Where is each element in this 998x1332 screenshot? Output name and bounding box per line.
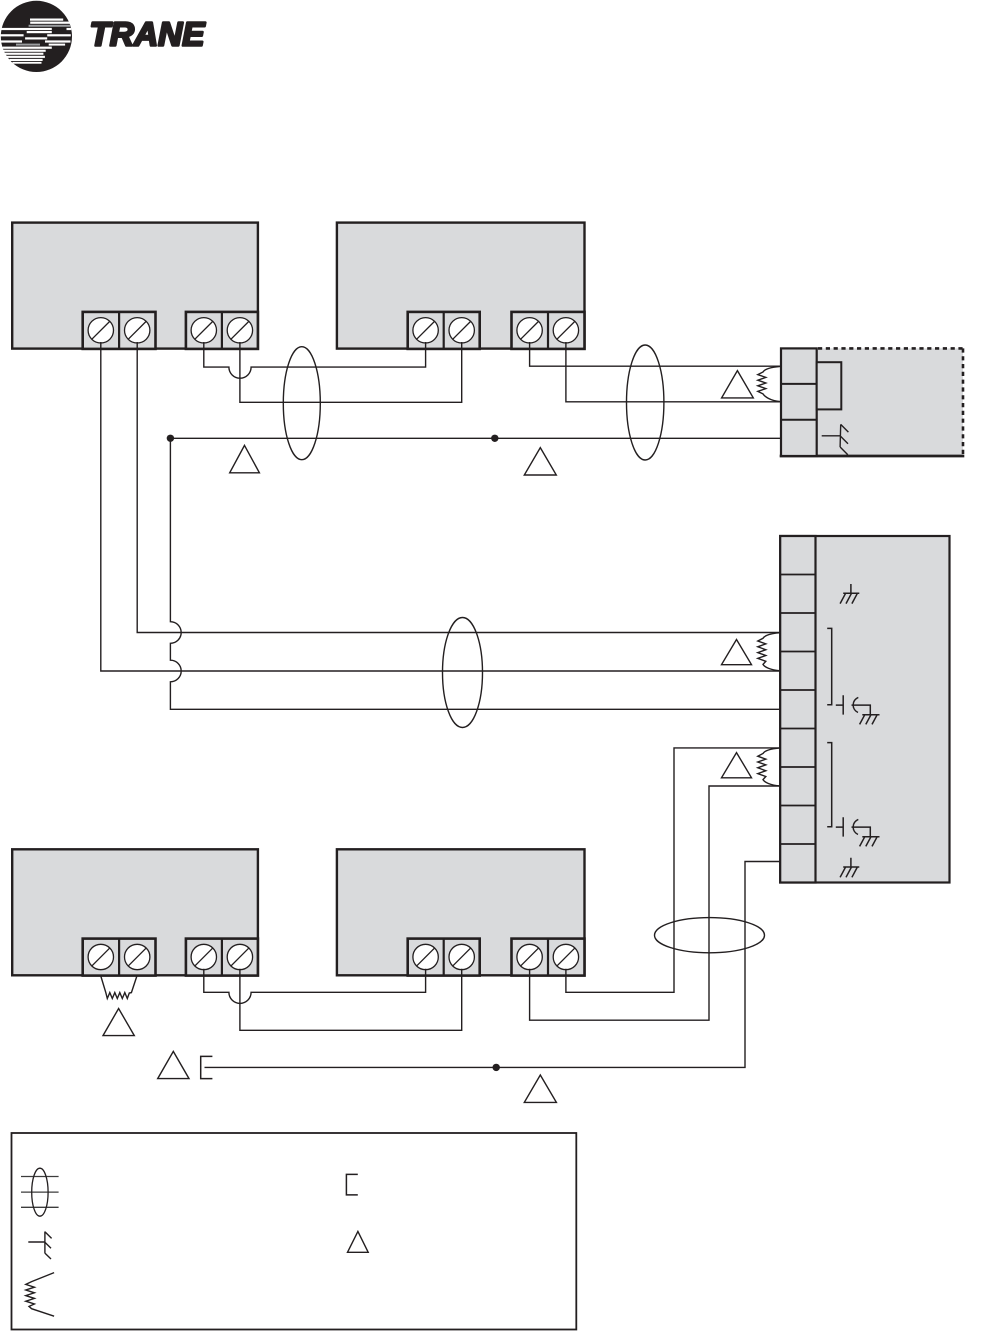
- TB4 screw 1: [517, 318, 542, 343]
- shielded cable symbol (top cable 1): [283, 347, 320, 460]
- TB3 screw 2: [449, 318, 474, 343]
- TB2 screw 1: [191, 318, 216, 343]
- bracket (U5 comm pair 2): [827, 743, 832, 827]
- wire U2.TB4-1 to J1 terminal 1: [530, 342, 781, 366]
- U5 strip dividers: [780, 575, 815, 845]
- note triangle (on shield 2 wire): [524, 1075, 556, 1102]
- controller box U3 (bottom-left): [12, 849, 258, 975]
- wire U1.TB1-2 to U5 terminal 3: [137, 342, 781, 633]
- shield drop wire (with hops over comm wires): [170, 438, 781, 709]
- legend: note triangle symbol: [348, 1231, 369, 1252]
- terminal block TB3 on U2: [408, 312, 480, 349]
- terminal block TB7 on U4: [408, 939, 480, 976]
- terminal block TB1 on U1 (comm link): [83, 312, 156, 349]
- wire U3.TB6-1 to U4.TB7-1 (with hop): [204, 969, 426, 1004]
- TB3 divider: [443, 312, 445, 349]
- controller box U4 (bottom-middle): [337, 849, 585, 975]
- legend: chassis ground symbol: [28, 1232, 51, 1260]
- TB5 screw 2: [125, 944, 150, 969]
- wire connector bracket (shield 2 start): [201, 1056, 213, 1078]
- TB5 screw 1: [88, 944, 113, 969]
- note triangle (at R2): [722, 640, 752, 665]
- shielded cable symbol (link cable 3): [443, 618, 483, 728]
- junction node (shield corner): [167, 435, 174, 442]
- terminal block TB5 on U3: [83, 939, 156, 976]
- controller box U1 (top-left): [12, 223, 258, 349]
- earth ground symbol (U5 bottom): [840, 858, 859, 878]
- junction node (shield 2): [493, 1064, 500, 1071]
- connector J1 terminal column: [781, 348, 817, 456]
- TB2 screw 2: [227, 318, 252, 343]
- TB8 screw 1: [517, 944, 542, 969]
- shielded cable symbol (top cable 2): [627, 345, 664, 460]
- note triangle (at R1): [722, 371, 754, 398]
- wire U1.TB1-1 to U5 terminal 4: [101, 342, 781, 671]
- wire U2.TB4-2 to J1 terminal 2: [566, 342, 781, 402]
- shielded cable symbol (link cable 4, horizontal): [655, 918, 765, 953]
- note triangle (at R3): [722, 753, 752, 778]
- note triangle 4 (left, on shield wire): [230, 445, 260, 472]
- wire U1.TB2-2 to U2.TB3-2: [240, 342, 462, 402]
- shield wire segment 1 (to J1 ground terminal): [170, 437, 781, 439]
- note triangle 4 (right, on shield wire): [524, 448, 556, 475]
- gateway box U5 (right, tall): [780, 536, 949, 883]
- TB1 screw 1: [88, 318, 113, 343]
- legend: wire connector bracket symbol: [346, 1174, 357, 1195]
- TB8 divider: [547, 939, 549, 976]
- Trane logo globe: [0, 1, 72, 72]
- TB7 screw 2: [449, 944, 474, 969]
- TB1 screw 2: [125, 318, 150, 343]
- chassis ground symbol inside J1: [822, 424, 849, 454]
- wire U1.TB2-1 to U2.TB3-1 (with hop): [204, 342, 426, 378]
- terminating resistor R3 at U5 pair 2: [758, 748, 781, 786]
- junction node (shield mid): [491, 435, 498, 442]
- TB3 screw 1: [413, 318, 438, 343]
- TB2 divider: [221, 312, 223, 349]
- terminal block TB4 on U2: [512, 312, 585, 349]
- terminal block TB2 on U1: [186, 312, 258, 349]
- terminating resistor R1 at J1: [758, 366, 781, 401]
- TB8 screw 2: [553, 944, 578, 969]
- note triangle (at R4): [103, 1009, 134, 1036]
- J1 terminal dividers: [781, 383, 817, 385]
- terminating resistor R4 at U3.TB5: [101, 976, 137, 999]
- controller box U2 (top-middle): [337, 223, 585, 349]
- U5 terminal strip: [780, 536, 815, 883]
- J1 jumper block: [817, 362, 842, 409]
- TB7 divider: [443, 939, 445, 976]
- svg-text:TRANE: TRANE: [90, 16, 207, 53]
- legend: resistor symbol: [26, 1273, 54, 1317]
- terminal block TB8 on U4: [512, 939, 585, 976]
- TB6 screw 1: [191, 944, 216, 969]
- TB1 divider: [118, 312, 120, 349]
- note triangle (at shield 2 start): [158, 1051, 189, 1078]
- TB4 screw 2: [553, 318, 578, 343]
- connector J1 body (top-right, dashed outline device): [780, 348, 965, 456]
- TB4 divider: [547, 312, 549, 349]
- TB7 screw 1: [413, 944, 438, 969]
- terminating resistor R2 at U5 pair 1: [758, 633, 781, 671]
- terminal block TB6 on U3: [186, 939, 258, 976]
- capacitor C2 to chassis ground (U5): [836, 817, 880, 846]
- legend box: [12, 1133, 577, 1330]
- wire U3.TB6-2 to U4.TB7-2: [240, 969, 462, 1031]
- legend: shielded cable symbol: [21, 1168, 59, 1216]
- bracket (U5 comm pair 1): [827, 628, 832, 704]
- capacitor C1 to chassis ground (U5): [836, 695, 880, 724]
- TB5 divider: [118, 939, 120, 976]
- wire U4.TB8-2 to U5 terminal 6: [566, 748, 781, 992]
- shield wire segment 2 (to U5 terminal 9): [205, 862, 782, 1068]
- wire U4.TB8-1 to U5 terminal 7: [530, 786, 781, 1020]
- TB6 divider: [221, 939, 223, 976]
- earth ground symbol (U5 top): [840, 584, 859, 604]
- TB6 screw 2: [227, 944, 252, 969]
